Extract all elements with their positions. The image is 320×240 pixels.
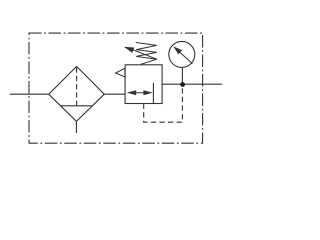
- regulator R1: adjustment arrow shaft: [130, 49, 157, 60]
- wire: gauge connection stub: [181, 68, 183, 85]
- filter F1: condensate separator line: [61, 105, 92, 107]
- regulator R1: valve body box: [125, 65, 162, 104]
- filter F1: diamond body: [49, 66, 105, 121]
- wire: regulator outlet line (port 2): [162, 83, 222, 85]
- regulator R1: relief vent triangle: [116, 68, 125, 77]
- filter F1: dashed element centre line: [76, 68, 78, 106]
- pressure gauge G1: dial circle: [169, 41, 195, 67]
- junction node: outlet / gauge / pilot tie point: [180, 82, 185, 87]
- pressure gauge G1: needle shaft: [179, 51, 193, 64]
- filter F1: drain stub: [75, 121, 77, 133]
- enclosure dash-dot boundary box (service unit assembly): [29, 33, 203, 143]
- regulator R1: flow path double arrow: [127, 90, 153, 95]
- wire: inlet line (port 1): [10, 93, 50, 95]
- pressure gauge G1: needle arrow head: [173, 46, 182, 54]
- pilot line: dashed feedback path from regulator diaphragm to outlet: [144, 86, 183, 122]
- regulator R1: adjustment arrow head: [124, 47, 135, 53]
- regulator R1: internal outlet passage line: [152, 83, 154, 104]
- regulator R1: setting spring: [136, 43, 157, 65]
- wire: filter outlet to regulator inlet: [104, 93, 125, 95]
